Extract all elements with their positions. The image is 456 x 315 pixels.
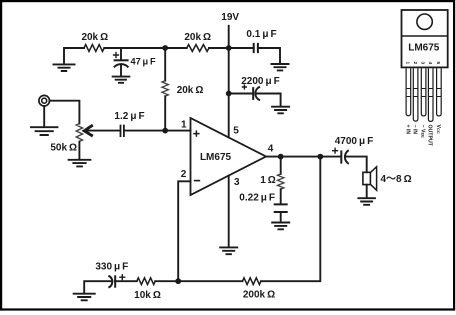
- capacitor C4 1.2uF: [121, 125, 124, 137]
- svg-text:5: 5: [435, 61, 441, 64]
- wire: node G to R5: [155, 280, 178, 282]
- node G junction (feedback): [175, 278, 181, 284]
- node F junction (feedback tap): [317, 154, 323, 160]
- node C junction (2200uF tap): [226, 91, 232, 97]
- svg-text:− IN: − IN: [412, 125, 418, 135]
- ground G6 (pot): [68, 160, 92, 167]
- wire: wiper to C4: [85, 130, 120, 132]
- svg-text:LM675: LM675: [408, 42, 440, 53]
- wire: rail down to pin 5: [228, 94, 230, 138]
- svg-text:4: 4: [268, 143, 274, 154]
- svg-text:LM675: LM675: [200, 152, 232, 163]
- svg-text:50k Ω: 50k Ω: [50, 143, 77, 154]
- svg-text:200k Ω: 200k Ω: [243, 290, 275, 301]
- resistor R4 1 ohm: [278, 174, 284, 189]
- svg-text:10k Ω: 10k Ω: [134, 290, 161, 301]
- resistor R5 10k ohm: [137, 278, 155, 285]
- wire: R2 to 19V node: [209, 47, 229, 49]
- package leg 5: [437, 68, 442, 116]
- wire: 19V rail down to 2200uF tap: [228, 48, 230, 94]
- wire: tap to C3: [229, 93, 253, 95]
- wire: C5 to ground: [84, 281, 112, 293]
- wire: R3 to node D: [164, 96, 166, 130]
- wire: R6 to node G: [178, 280, 242, 282]
- svg-text:20k Ω: 20k Ω: [177, 85, 204, 96]
- svg-text:19V: 19V: [221, 12, 239, 23]
- wire: 19V supply lead: [228, 26, 230, 48]
- leg stamp ticks: [406, 89, 441, 97]
- wire: pin 3 to ground: [228, 176, 230, 247]
- wire: ground stub to R1 left: [64, 48, 84, 64]
- svg-text:2: 2: [181, 169, 187, 180]
- wire: R1 to node A: [104, 47, 165, 49]
- ground G5 (jack): [30, 127, 58, 135]
- plus sign C7: [332, 148, 338, 154]
- package leg 3: [421, 68, 426, 116]
- input jack J1: [39, 95, 50, 106]
- wire: jack tip to pot top: [50, 101, 80, 124]
- svg-text:3: 3: [234, 177, 240, 188]
- ground G2 (C2): [271, 64, 290, 70]
- IC package LM675 TO-220: [402, 10, 448, 67]
- wire: pot bottom to ground: [78, 142, 80, 160]
- svg-text:1: 1: [181, 120, 187, 131]
- svg-text:OUTPUT: OUTPUT: [427, 125, 433, 147]
- wire: jack sleeve to ground: [43, 106, 45, 126]
- node A junction: [162, 45, 168, 51]
- wire: C2 to ground: [258, 48, 280, 63]
- plus sign C5: [119, 274, 125, 280]
- ground G4 (C3): [271, 107, 290, 114]
- svg-text:+ IN: + IN: [404, 125, 410, 135]
- svg-text:5: 5: [233, 125, 239, 136]
- package leg 4: [428, 68, 433, 121]
- capacitor C2 0.1uF: [254, 43, 258, 53]
- svg-text:3: 3: [420, 61, 426, 64]
- wire: R5 to C5: [115, 280, 137, 282]
- wire: node E down to R4: [280, 157, 282, 174]
- op-amp U1 LM675: [191, 118, 267, 195]
- wire: C6 to ground: [280, 212, 282, 222]
- svg-text:4700 μ F: 4700 μ F: [335, 136, 373, 147]
- resistor R3 20k ohm vertical: [162, 81, 168, 97]
- node B junction (19V rail): [226, 45, 232, 51]
- capacitor C6 0.22uF: [274, 204, 288, 212]
- capacitor C3 2200uF polarized: [253, 87, 260, 101]
- wire: pin 2 feedback drop: [178, 181, 190, 281]
- ground G9 (speaker): [357, 198, 376, 205]
- svg-text:2: 2: [412, 61, 418, 64]
- package leg 1: [406, 68, 411, 115]
- package leg 2: [413, 68, 418, 121]
- resistor R6 200k ohm: [243, 278, 261, 285]
- ground G7 (pin 3): [219, 247, 238, 254]
- svg-text:47 μ F: 47 μ F: [131, 56, 157, 66]
- node D junction (pin1 net): [162, 128, 168, 134]
- ground G10 (C5): [73, 294, 96, 301]
- node E junction (output): [278, 154, 284, 160]
- wire: 47uF stub from rail: [120, 48, 122, 60]
- svg-text:330 μ F: 330 μ F: [95, 262, 128, 273]
- potentiometer VR1 50k: [76, 124, 82, 142]
- resistor R1 20k ohm: [84, 45, 104, 52]
- wire: speaker to ground: [366, 185, 368, 198]
- ground G1 (left of R1): [53, 64, 76, 71]
- svg-text:0.1 μ F: 0.1 μ F: [246, 29, 276, 40]
- wire: R4 to C6: [280, 189, 282, 204]
- svg-text:1 Ω: 1 Ω: [260, 175, 276, 186]
- wire: node D to op-amp pin 1: [165, 130, 190, 132]
- wire: node A to R2: [165, 47, 187, 49]
- plus sign C1: [113, 52, 119, 58]
- svg-text:1.2 μ F: 1.2 μ F: [114, 111, 144, 122]
- capacitor C5 330uF polarized: [108, 275, 115, 287]
- ground G3 (C1): [112, 77, 131, 83]
- ground G8 (zobel): [271, 223, 290, 230]
- svg-text:2200 μ F: 2200 μ F: [241, 76, 279, 87]
- capacitor C7 4700uF polarized: [341, 150, 349, 164]
- package pin numbers 1-5: [405, 61, 441, 64]
- capacitor C1 47uF polarized: [114, 60, 129, 67]
- wire: C4 to node D: [124, 130, 165, 132]
- svg-text:4～8 Ω: 4～8 Ω: [381, 174, 412, 185]
- wire: node A down to R3: [164, 48, 166, 81]
- plus sign C3: [242, 84, 247, 89]
- svg-text:20k Ω: 20k Ω: [184, 32, 211, 43]
- svg-text:0.22 μ F: 0.22 μ F: [239, 193, 275, 204]
- wiper arrow of VR1: [84, 125, 93, 136]
- wire: output pin 4: [266, 156, 341, 158]
- svg-text:20k Ω: 20k Ω: [81, 32, 108, 43]
- svg-text:4: 4: [427, 61, 433, 64]
- wire: rail to C2 0.1uF: [229, 47, 254, 49]
- wire: C7 to speaker: [345, 157, 367, 173]
- wire: feedback drop from node F: [261, 157, 320, 282]
- wire: C1 to ground: [120, 65, 122, 76]
- speaker LS1: [363, 167, 377, 191]
- resistor R2 20k ohm: [187, 45, 209, 52]
- wire: C3 to ground: [256, 94, 281, 106]
- svg-text:1: 1: [405, 61, 411, 64]
